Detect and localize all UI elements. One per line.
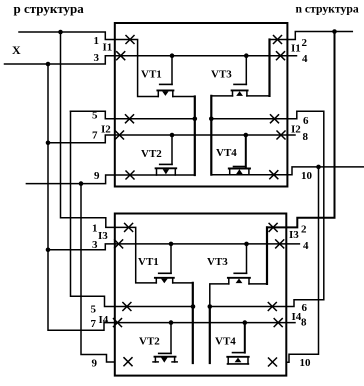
svg-text:I2: I2 — [101, 124, 111, 136]
connection cross pin 2 — [274, 36, 282, 44]
svg-text:2: 2 — [302, 37, 308, 49]
node junction dot wire5 left / VT1 drain — [193, 117, 198, 122]
svg-text:n структура: n структура — [296, 3, 359, 16]
node junction dot VT3' gate on wire 3' — [244, 242, 249, 247]
connection cross pin 4 — [277, 52, 285, 60]
svg-text:I1: I1 — [103, 42, 113, 54]
wire bus F (pin 10 down to pin 10' of DD2) — [286, 167, 318, 362]
transistor VT4' (bottom block) — [227, 323, 248, 364]
svg-text:7: 7 — [91, 318, 97, 330]
connection cross pin 3' — [115, 240, 123, 248]
svg-text:VT3: VT3 — [207, 256, 228, 268]
wire pin 10 with step to right edge — [211, 167, 363, 175]
connection cross pin 7' — [114, 319, 122, 327]
node junction dot VT3 gate on wire 3 — [244, 53, 249, 58]
node junction dot wire5' left / VT1' drain — [191, 304, 196, 309]
node junction dot VT1' gate on wire 3' — [169, 242, 174, 247]
node junction dot pin9 wire / bus E — [79, 181, 84, 186]
wire pin 5 outer / bus D / pin 5' stub — [71, 111, 194, 306]
svg-text:VT2: VT2 — [139, 336, 160, 348]
svg-text:1: 1 — [92, 223, 98, 235]
svg-text:10: 10 — [301, 170, 313, 182]
transistor VT3' (bottom block) — [228, 244, 267, 284]
node junction dot wire5 right / VT3 source — [209, 117, 214, 122]
wire VT3 source down to pin 10 wire — [210, 96, 212, 175]
svg-text:3: 3 — [92, 239, 98, 251]
connection cross pin 1' — [125, 223, 133, 231]
svg-text:VT1: VT1 — [138, 256, 159, 268]
node junction dot pin2 wire / bus H — [332, 29, 337, 34]
svg-text:I4: I4 — [99, 314, 109, 326]
wire bus B (X-top down to pin 1 of DD2, into VT1' source) — [61, 32, 157, 283]
node junction dot VT4 gate on wire 7 — [244, 133, 249, 138]
connection cross pin 6' — [268, 303, 276, 311]
connection cross pin 9' — [124, 358, 132, 366]
svg-text:1: 1 — [94, 35, 100, 47]
transistor VT2 (top block) — [156, 135, 177, 175]
svg-text:6: 6 — [302, 302, 308, 314]
wire pin 6 / bus G / pin 6' net — [210, 111, 324, 306]
connection cross pin 7 — [116, 131, 124, 139]
svg-text:9: 9 — [94, 170, 100, 182]
connection cross pin 8 — [277, 131, 285, 139]
node junction dot wire5' right / VT3' source — [208, 304, 213, 309]
node junction dot bus A / wire 7 — [46, 141, 51, 146]
wire X-top to pin 1 (step, stub, VT1 source) — [19, 32, 158, 97]
svg-text:5: 5 — [91, 304, 97, 316]
connection cross pin 5 — [126, 115, 134, 123]
wire bus H (pin 2 down to pin 2' of DD2, VT3' drain) — [267, 32, 335, 228]
connection cross pin 9 — [126, 171, 134, 179]
svg-text:I1: I1 — [291, 43, 301, 55]
node junction dot VT2' gate on wire 7' — [169, 320, 174, 325]
connection cross pin 4' — [276, 240, 284, 248]
transistor VT3 (top block) — [211, 56, 269, 96]
svg-text:4: 4 — [302, 53, 308, 65]
connection cross pin 2' — [269, 223, 277, 231]
wire bus A (X-bottom down to pin 7' gate line of DD2) — [48, 64, 295, 330]
wire pin 2 with step and tail — [270, 32, 353, 40]
block DD1 (top switch block) — [115, 23, 288, 187]
connection cross pin 10' — [269, 358, 277, 366]
svg-text:VT4: VT4 — [216, 147, 237, 159]
connection cross pin 10 — [270, 171, 278, 179]
wire bus E (pin 9 down to pin 9' of DD2) — [81, 184, 114, 362]
wire VT3 drain up to pin 2 wire — [268, 40, 270, 96]
node junction dot X-top / bus B — [58, 30, 63, 35]
node junction dot pin10 wire / bus F — [316, 165, 321, 170]
svg-text:VT1: VT1 — [141, 69, 162, 81]
svg-text:4: 4 — [303, 240, 309, 252]
connection cross pin 1 — [126, 36, 134, 44]
svg-text:9: 9 — [92, 358, 98, 370]
node junction dot VT2 gate on wire 7 — [170, 133, 175, 138]
svg-text:8: 8 — [303, 131, 309, 143]
wire VT1 drain down to pin 9 wire — [194, 97, 196, 176]
svg-text:6: 6 — [303, 115, 309, 127]
svg-text:I3: I3 — [98, 230, 108, 242]
svg-text:10: 10 — [300, 357, 312, 369]
svg-text:8: 8 — [301, 317, 307, 329]
node junction dot VT1 gate on wire 3 — [170, 53, 175, 58]
transistor VT2' (bottom block) — [153, 323, 177, 363]
wire 5' right segment to VT3' source — [210, 284, 229, 307]
node junction dot X-bottom / bus A — [46, 62, 51, 67]
connection cross pin 5' — [123, 303, 131, 311]
block DD2 (bottom switch block) — [115, 214, 286, 376]
connection cross pin 3 — [117, 52, 125, 60]
node junction dot bus A / wire 3' — [46, 248, 51, 253]
transistor VT1 (top block) — [157, 56, 194, 97]
wire VT1' drain hanging vertical — [192, 283, 194, 363]
wire 3' gate line of DD2 (pins 3'-4') — [48, 244, 299, 250]
svg-text:p структура: p структура — [14, 1, 85, 16]
svg-text:3: 3 — [94, 52, 100, 64]
wire X-bottom gate line pins 3-4 — [5, 56, 297, 64]
node junction dot VT4' gate on wire 7' — [243, 320, 248, 325]
transistor VT1' (bottom block) — [155, 244, 193, 283]
transistor VT4 (top block) — [229, 135, 250, 175]
wire VT3' drain vertical — [266, 227, 268, 284]
wire 7 gate line of DD1 (pins 7-8) — [48, 135, 295, 143]
svg-text:X: X — [12, 43, 21, 57]
svg-text:VT4: VT4 — [215, 336, 236, 348]
svg-text:I2: I2 — [291, 124, 301, 136]
svg-text:7: 7 — [92, 130, 98, 142]
svg-text:I3: I3 — [289, 229, 299, 241]
connection cross pin 6 — [271, 115, 279, 123]
svg-text:5: 5 — [92, 110, 98, 122]
svg-text:2: 2 — [301, 224, 307, 236]
svg-text:VT2: VT2 — [141, 148, 162, 160]
wire pin 5 step into DD1 (left segment of wire 5) — [71, 111, 195, 119]
connection cross pin 8' — [274, 319, 282, 327]
wire VT3' source hanging vertical — [209, 307, 211, 364]
svg-text:VT3: VT3 — [211, 69, 232, 81]
wire pin 9 outer and stub — [26, 175, 194, 184]
